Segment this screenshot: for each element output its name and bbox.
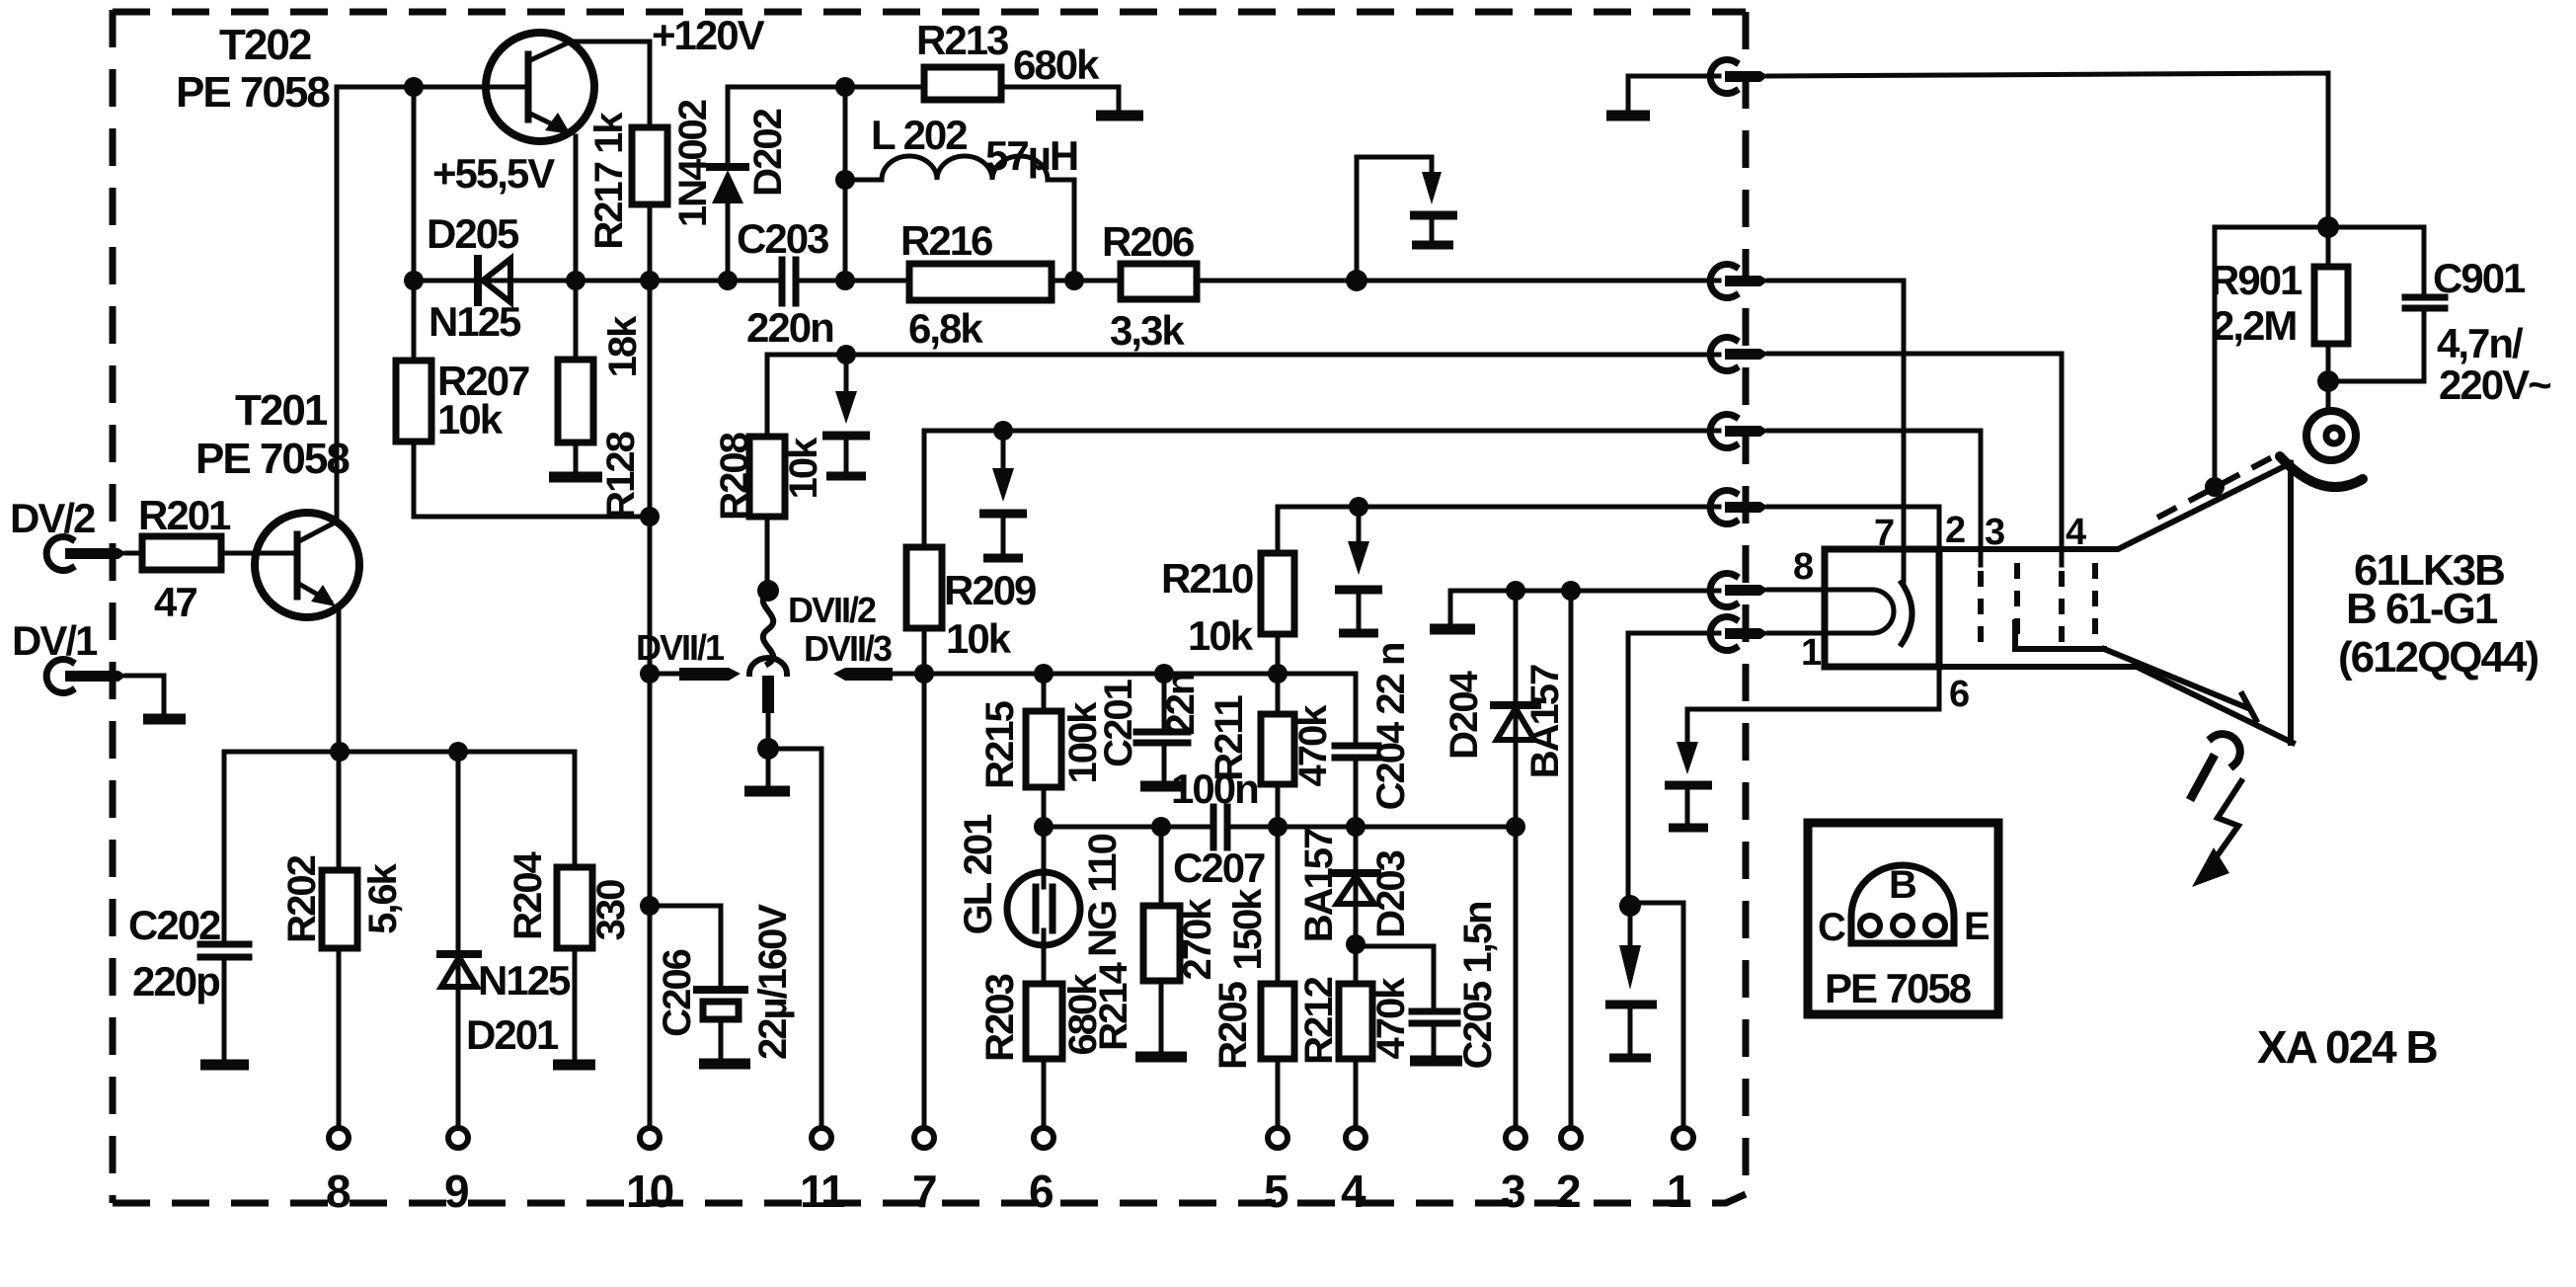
svg-text:7: 7 (912, 1166, 936, 1217)
svg-text:DVII/2: DVII/2 (788, 590, 876, 630)
svg-text:18k: 18k (601, 315, 645, 377)
svg-text:DV/2: DV/2 (10, 495, 95, 541)
svg-text:150k: 150k (1226, 888, 1270, 971)
svg-text:D203: D203 (1369, 850, 1413, 937)
svg-text:C201: C201 (1097, 679, 1140, 766)
svg-text:4,7n/: 4,7n/ (2437, 320, 2524, 366)
svg-text:(612QQ44): (612QQ44) (2338, 633, 2537, 682)
svg-text:DV/1: DV/1 (12, 617, 98, 664)
svg-text:R210: R210 (1161, 555, 1253, 602)
svg-text:R203: R203 (978, 974, 1022, 1061)
svg-text:B 61-G1: B 61-G1 (2346, 585, 2498, 633)
svg-text:C207: C207 (1173, 845, 1265, 891)
svg-text:6: 6 (1949, 674, 1969, 715)
svg-text:C204 22 n: C204 22 n (1369, 644, 1413, 811)
svg-text:D201: D201 (466, 1011, 559, 1058)
svg-text:11: 11 (800, 1166, 845, 1217)
svg-text:L 202: L 202 (871, 112, 967, 158)
svg-text:BA157: BA157 (1523, 665, 1567, 778)
svg-text:10k: 10k (782, 437, 825, 499)
svg-text:10k: 10k (1188, 612, 1254, 659)
svg-text:220p: 220p (132, 958, 219, 1005)
svg-text:22n: 22n (1159, 674, 1203, 736)
svg-text:+55,5V: +55,5V (432, 150, 555, 197)
svg-text:5: 5 (1264, 1166, 1288, 1217)
svg-text:1: 1 (1801, 632, 1822, 674)
svg-text:T201: T201 (235, 386, 328, 435)
svg-text:22µ/160V: 22µ/160V (751, 904, 795, 1060)
svg-text:47: 47 (154, 579, 196, 625)
svg-text:XA 024 B: XA 024 B (2257, 1021, 2438, 1073)
svg-text:470k: 470k (1291, 704, 1335, 787)
svg-text:R901: R901 (2210, 257, 2303, 303)
svg-text:T202: T202 (219, 21, 311, 69)
svg-text:4: 4 (1341, 1166, 1366, 1217)
svg-text:10k: 10k (437, 396, 504, 442)
svg-text:PE 7058: PE 7058 (176, 68, 330, 117)
svg-text:N125: N125 (429, 298, 521, 345)
svg-text:R202: R202 (280, 855, 324, 942)
svg-text:PE 7058: PE 7058 (195, 435, 350, 483)
svg-text:GL 201: GL 201 (957, 814, 1000, 934)
svg-text:R212: R212 (1297, 977, 1341, 1064)
svg-text:10k: 10k (946, 615, 1012, 662)
svg-text:470k: 470k (1369, 977, 1413, 1060)
svg-text:R213: R213 (916, 17, 1008, 63)
svg-text:C901: C901 (2433, 255, 2526, 301)
svg-text:DVII/3: DVII/3 (804, 628, 892, 669)
svg-text:R208: R208 (713, 432, 756, 520)
svg-text:C206: C206 (656, 949, 699, 1036)
svg-text:D204: D204 (1443, 670, 1486, 759)
svg-text:220V~: 220V~ (2439, 362, 2550, 408)
svg-text:R216: R216 (900, 217, 992, 264)
svg-text:C: C (1818, 906, 1845, 949)
svg-text:C202: C202 (128, 902, 220, 948)
svg-text:3: 3 (1501, 1166, 1524, 1217)
svg-text:1: 1 (1667, 1166, 1691, 1217)
svg-text:680k: 680k (1013, 41, 1100, 88)
svg-text:PE 7058: PE 7058 (1825, 965, 1972, 1011)
svg-text:R217 1k: R217 1k (587, 112, 631, 250)
svg-text:2,2M: 2,2M (2212, 302, 2296, 349)
svg-text:6,8k: 6,8k (908, 305, 983, 352)
svg-text:9: 9 (444, 1166, 468, 1217)
svg-text:D202: D202 (746, 109, 790, 196)
svg-text:1N4002: 1N4002 (671, 100, 715, 227)
svg-text:7: 7 (1874, 513, 1894, 554)
svg-text:R201: R201 (138, 492, 231, 538)
svg-text:DVII/1: DVII/1 (636, 627, 725, 668)
svg-text:R215: R215 (978, 700, 1022, 788)
svg-text:R204: R204 (507, 850, 550, 939)
svg-text:C205 1,5n: C205 1,5n (1456, 903, 1500, 1070)
svg-text:E: E (1964, 905, 1990, 948)
svg-text:R128: R128 (599, 431, 643, 519)
svg-text:8: 8 (326, 1166, 351, 1217)
svg-text:NG 110: NG 110 (1081, 834, 1125, 956)
svg-text:10: 10 (626, 1166, 673, 1217)
svg-text:R205: R205 (1211, 981, 1255, 1069)
svg-text:3: 3 (1985, 512, 2004, 553)
svg-text:R209: R209 (944, 567, 1036, 613)
svg-text:330: 330 (589, 880, 633, 940)
svg-text:4: 4 (2066, 512, 2086, 553)
svg-text:+120V: +120V (652, 12, 765, 58)
svg-text:BA157: BA157 (1297, 829, 1341, 942)
svg-text:5,6k: 5,6k (361, 862, 405, 934)
svg-text:2: 2 (1945, 510, 1965, 551)
svg-text:R211: R211 (1208, 695, 1251, 781)
svg-text:6: 6 (1029, 1166, 1053, 1217)
svg-text:R206: R206 (1102, 218, 1194, 265)
svg-text:220n: 220n (746, 304, 833, 351)
svg-text:3,3k: 3,3k (1110, 307, 1185, 354)
svg-text:270k: 270k (1176, 898, 1219, 981)
svg-text:B: B (1889, 863, 1916, 907)
svg-text:C203: C203 (737, 215, 828, 262)
svg-text:R214: R214 (1092, 961, 1135, 1050)
svg-text:57µH: 57µH (985, 132, 1077, 179)
svg-text:D205: D205 (427, 210, 519, 257)
svg-text:2: 2 (1556, 1166, 1580, 1217)
svg-text:8: 8 (1793, 546, 1813, 588)
svg-text:N125: N125 (478, 957, 571, 1004)
